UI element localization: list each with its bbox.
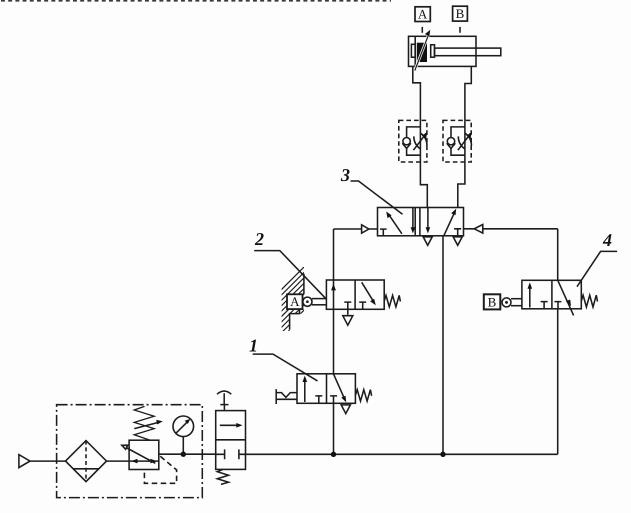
blocked P T	[330, 396, 337, 403]
blocked P T	[554, 302, 561, 309]
flow control valve DR1 (left)	[399, 120, 429, 162]
wire rail up to valve 4 input	[557, 309, 559, 455]
node B position tick	[459, 27, 461, 33]
left position: blocked port T	[380, 229, 387, 236]
through-flow arrow	[220, 424, 240, 426]
spring adjust arrow	[134, 422, 160, 429]
blocked left T	[216, 449, 225, 459]
wire valve 2 input down to valve 1 output	[333, 309, 335, 374]
node B label box	[453, 6, 468, 21]
pressure gauge	[173, 416, 194, 457]
flow up arrow	[304, 378, 306, 403]
cam label B box	[484, 294, 501, 309]
return spring	[581, 295, 597, 307]
air service unit dash-dot box	[57, 405, 203, 498]
valve 3 exhaust triangle left	[423, 237, 432, 245]
push button actuator	[217, 391, 231, 394]
blocked T left square	[541, 302, 548, 309]
valve 1 (3/2 manual valve)	[297, 374, 372, 404]
label 1 with leader	[249, 336, 318, 381]
svg-text:3: 3	[340, 165, 350, 185]
cylinder C1 body	[409, 36, 501, 66]
svg-text:4: 4	[602, 230, 612, 250]
valve 2 exhaust with triangle	[347, 309, 349, 315]
wire cylinder left port to valve 3 port A	[413, 66, 428, 207]
right position: P-to-B diagonal arrow	[444, 212, 455, 236]
valve 3 (5/2 pilot valve) body	[378, 208, 464, 236]
cylinder cushioning adjust arrow	[415, 30, 431, 71]
node A position tick	[421, 27, 423, 33]
junction at valve 1	[331, 452, 336, 457]
cam label A box	[287, 294, 303, 309]
left pilot line with arrow	[334, 225, 378, 233]
right pilot line with arrow	[464, 225, 558, 234]
wire valve 1 input down to rail	[333, 403, 335, 454]
wire filter to regulator	[107, 460, 130, 462]
regulator spring	[134, 406, 154, 440]
label 2 with leader	[254, 229, 326, 299]
svg-text:B: B	[488, 294, 497, 309]
blocked exhaust T	[344, 302, 351, 309]
dashed feedback pilot line	[144, 456, 176, 483]
rest diagonal to exhaust	[334, 374, 345, 399]
wire pilot corner down to valve 2 output	[333, 229, 335, 280]
blocked right T	[239, 449, 246, 459]
compressed air source triangle	[19, 455, 66, 468]
filter with water separator	[66, 441, 107, 482]
blocked T left square	[315, 396, 322, 403]
label 3 with leader	[340, 165, 403, 214]
pressure regulator	[122, 406, 177, 483]
rest diagonal to exhaust	[558, 281, 574, 316]
svg-text:2: 2	[254, 229, 264, 249]
left position: P-to-A diagonal arrow	[388, 214, 402, 234]
return spring	[384, 295, 400, 306]
right position: A-to-exhaust down arrow	[427, 208, 429, 230]
label 4 with leader	[577, 230, 617, 287]
valve 2 roller	[303, 297, 327, 306]
valve 3 exhaust triangle right	[453, 237, 462, 245]
return spring below	[217, 469, 228, 484]
valve 4 (3/2 roller limit valve)	[522, 280, 598, 315]
svg-text:A: A	[418, 7, 428, 22]
junction at valve 3	[440, 452, 445, 457]
valve 1 exhaust triangle	[341, 405, 350, 414]
flow up arrow	[333, 280, 335, 309]
svg-text:B: B	[456, 6, 465, 21]
flow up arrow	[529, 284, 531, 307]
valve 4 roller	[502, 298, 522, 307]
flow control valve DR2 (right)	[443, 120, 473, 162]
valve 2 (3/2 roller limit valve, actuated)	[326, 280, 400, 309]
rest position diagonal	[362, 282, 374, 301]
wire cylinder right port to valve 3 port B	[458, 66, 472, 207]
bottom supply rail	[246, 453, 558, 455]
wire valve 4 output up to right pilot	[557, 229, 559, 280]
node A label box	[415, 7, 430, 22]
return spring	[355, 390, 371, 401]
right position: blocked port T	[454, 229, 461, 236]
rest position blocked T	[359, 302, 366, 309]
valve 1 manual push actuator	[276, 389, 297, 404]
svg-text:A: A	[290, 294, 300, 309]
left position: B-to-exhaust down arrow	[412, 208, 414, 230]
start valve (3/2 push button, vertical)	[216, 391, 246, 484]
svg-text:1: 1	[249, 336, 258, 356]
cam wall with hatching at A	[280, 267, 305, 346]
cropped text strip at top	[1, 0, 391, 2]
wire valve 3 supply to bottom rail	[442, 236, 444, 454]
wire regulator to start valve	[159, 453, 216, 455]
